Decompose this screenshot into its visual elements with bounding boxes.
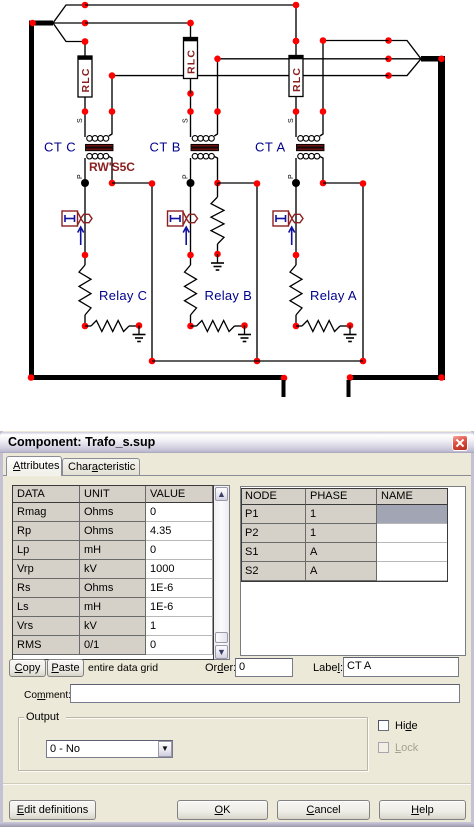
svg-text:S: S bbox=[288, 118, 295, 123]
current transformer CT B bbox=[183, 108, 221, 187]
wire: CT B relay branch bbox=[190, 183, 192, 255]
wire: phase A top (left splitter to CT A column) bbox=[85, 2, 299, 45]
Relay C ground resistor bbox=[85, 321, 142, 332]
bus: right bus bbox=[347, 56, 445, 381]
svg-text:CT B: CT B bbox=[150, 140, 181, 155]
probe arrow phase B bbox=[183, 227, 189, 245]
splitter: left 3-phase splitter bbox=[29, 2, 88, 45]
splitter: right 3-phase splitter bbox=[385, 37, 445, 79]
burden resistor on CT B secondary bbox=[211, 183, 224, 257]
wire: CT C secondary bottom return bbox=[112, 180, 155, 364]
wire: common secondary return bbox=[152, 360, 363, 362]
Relay B ground resistor bbox=[191, 321, 248, 332]
current transformer CT A bbox=[288, 108, 326, 187]
svg-text:P: P bbox=[77, 174, 84, 179]
bus: left source bus bbox=[28, 21, 288, 382]
ground for Relay B bbox=[238, 326, 251, 342]
wire: CT C relay branch bbox=[84, 183, 86, 255]
bus stub below right bus bbox=[347, 380, 351, 397]
relay resistor Relay C bbox=[79, 252, 91, 330]
RLC branch for CT A bbox=[289, 38, 303, 112]
bus stub below left bus bbox=[282, 380, 286, 397]
ground for Relay A bbox=[344, 326, 357, 342]
probe arrow phase A bbox=[289, 227, 295, 245]
wire: CT A relay branch bbox=[295, 183, 297, 255]
svg-text:Relay C: Relay C bbox=[99, 288, 147, 303]
svg-text:Relay A: Relay A bbox=[310, 288, 357, 303]
component dialog bbox=[0, 0, 474, 1]
relay resistor Relay B bbox=[185, 252, 197, 330]
RLC branch for CT C bbox=[78, 38, 92, 112]
svg-text:RLC: RLC bbox=[291, 67, 303, 92]
current transformer CT C bbox=[77, 108, 115, 187]
svg-text:S: S bbox=[183, 118, 190, 123]
Relay A ground resistor bbox=[296, 321, 353, 332]
svg-text:S: S bbox=[77, 118, 84, 123]
svg-text:P: P bbox=[288, 174, 295, 179]
wire: CT C secondary to right splitter bbox=[109, 72, 389, 111]
svg-text:RLC: RLC bbox=[80, 67, 92, 92]
wire: phase B (left splitter to RLC B) bbox=[85, 20, 194, 27]
wire: CT B secondary bottom return bbox=[218, 180, 261, 364]
current probe phase A bbox=[273, 211, 303, 226]
wire: CT A secondary to right splitter bbox=[320, 37, 389, 111]
wire: CT B secondary to right splitter bbox=[214, 56, 388, 112]
svg-text:RW'S5C: RW'S5C bbox=[89, 160, 135, 174]
current probe phase C bbox=[62, 211, 92, 226]
RLC branch for CT B bbox=[184, 20, 198, 94]
ground for burden resistor bbox=[211, 254, 224, 270]
ground for Relay C bbox=[133, 326, 146, 342]
svg-text:Relay B: Relay B bbox=[205, 288, 253, 303]
svg-text:CT C: CT C bbox=[44, 140, 76, 155]
svg-text:RLC: RLC bbox=[186, 49, 198, 74]
relay resistor Relay A bbox=[290, 252, 302, 330]
wire: RLC B bottom lead to CT B bbox=[187, 90, 194, 111]
current probe phase B bbox=[168, 211, 198, 226]
svg-text:P: P bbox=[183, 174, 190, 179]
svg-text:CT A: CT A bbox=[255, 140, 286, 155]
wire: CT A secondary bottom return bbox=[323, 180, 366, 364]
schematic drawing bbox=[0, 0, 474, 431]
probe arrow phase C bbox=[78, 227, 84, 245]
